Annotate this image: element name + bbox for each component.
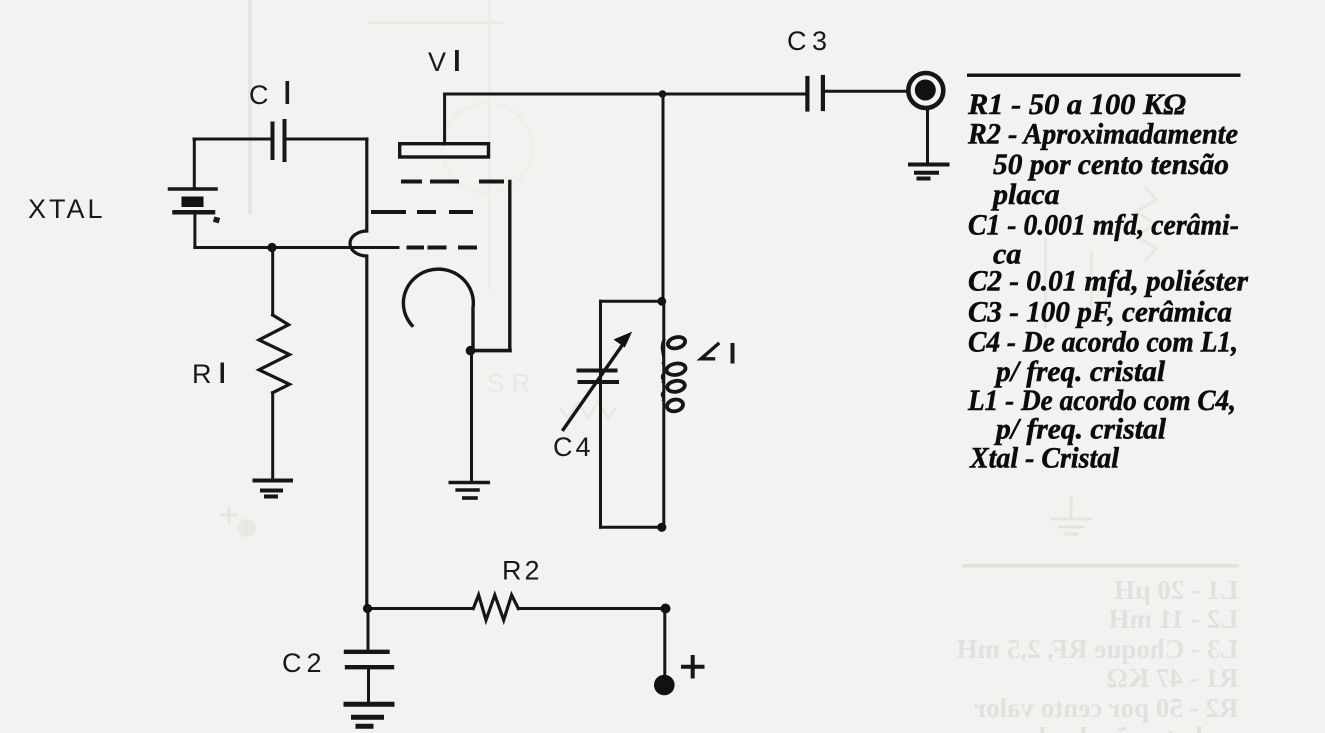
ghost horizontal strip top bbox=[368, 21, 503, 24]
wire: center line upper bbox=[662, 94, 665, 301]
wire: C2 top lead bbox=[367, 609, 370, 651]
wire: C2 bottom lead bbox=[367, 667, 370, 702]
svg-text:R2 - Aproximadamente: R2 - Aproximadamente bbox=[967, 118, 1238, 151]
svg-text:V: V bbox=[428, 47, 449, 77]
wire: cathode ground lead bbox=[470, 351, 473, 481]
terminal B+ dot bbox=[654, 675, 675, 696]
capacitor C4 plates bbox=[579, 371, 618, 383]
svg-text:R2: R2 bbox=[502, 556, 543, 586]
ghost ground bottom right bbox=[1052, 498, 1091, 534]
capacitor C2 plates bbox=[346, 652, 392, 667]
svg-text:R2 - 50 por cento valor: R2 - 50 por cento valor bbox=[974, 693, 1238, 723]
svg-text:C: C bbox=[787, 26, 810, 56]
crystal XTAL bbox=[170, 189, 221, 223]
node: tank bottom junction bbox=[657, 523, 666, 532]
resistor R1 label bbox=[192, 359, 224, 389]
legend rule bbox=[967, 74, 1241, 77]
wire: loop right vertical with hop bbox=[350, 139, 367, 609]
inductor L1 line bbox=[662, 301, 664, 527]
ground under C2 bbox=[346, 704, 392, 726]
wire: B+ top bus bbox=[445, 93, 806, 96]
svg-text:placa: placa bbox=[990, 178, 1060, 211]
svg-text:R1 - 50 a 100 KΩ: R1 - 50 a 100 KΩ bbox=[967, 88, 1186, 121]
inductor L1 label bbox=[701, 343, 735, 364]
node: plate bus junction bbox=[659, 90, 667, 98]
node: grid junction dot bbox=[267, 243, 276, 252]
wire: plate top lead bbox=[443, 94, 446, 144]
ghost tube circle bbox=[442, 103, 532, 193]
svg-text:L2 - 11 mH: L2 - 11 mH bbox=[1109, 604, 1239, 634]
svg-text:C4: C4 bbox=[553, 432, 594, 462]
wire: R2 right bbox=[518, 607, 666, 610]
label XTAL bbox=[28, 194, 106, 224]
svg-text:3: 3 bbox=[812, 26, 830, 56]
svg-text:R1 - 47 KΩ: R1 - 47 KΩ bbox=[1107, 663, 1239, 693]
wire: xtal loop top right bbox=[287, 138, 367, 141]
ghost blob bbox=[238, 519, 256, 537]
wire: cathode to suppressor bbox=[471, 349, 511, 353]
wire: xtal top lead bbox=[193, 139, 196, 188]
svg-text:C: C bbox=[249, 80, 272, 110]
svg-text:L1 - 20 µH: L1 - 20 µH bbox=[1114, 575, 1238, 605]
wire: xtal loop top left bbox=[194, 138, 270, 141]
svg-text:R: R bbox=[192, 359, 215, 389]
wire: loop bottom / grid lead bbox=[195, 246, 398, 249]
capacitor C1 plates bbox=[273, 121, 285, 160]
resistor R2 label bbox=[502, 556, 543, 586]
plus sign bbox=[683, 657, 703, 677]
tube grid row 3 (control) dashes bbox=[409, 246, 476, 250]
svg-text:C2 - 0.01 mfd, poliéster: C2 - 0.01 mfd, poliéster bbox=[968, 265, 1248, 298]
wire: R1 bottom lead bbox=[271, 393, 274, 478]
svg-text:C: C bbox=[282, 648, 305, 678]
ghost small plus left bbox=[222, 508, 236, 522]
wire: C4 upper lead bbox=[599, 301, 602, 527]
svg-text:L3 - Choque RF, 2,5 mH: L3 - Choque RF, 2,5 mH bbox=[957, 634, 1239, 664]
inductor L1 loops bbox=[666, 335, 687, 412]
wire: B+ terminal lead bbox=[663, 609, 666, 681]
output connector J1 bbox=[908, 73, 943, 108]
ghost marks right bbox=[1044, 238, 1047, 328]
node: tank top junction bbox=[657, 297, 666, 306]
svg-text:50 por cento tensão: 50 por cento tensão bbox=[993, 148, 1229, 181]
ghost mirrored text block bbox=[957, 575, 1239, 733]
capacitor C1 label bbox=[249, 80, 289, 110]
wire: R1 top lead bbox=[271, 248, 274, 316]
svg-text:Xtal - Cristal: Xtal - Cristal bbox=[969, 442, 1120, 475]
node: R2 right junction bbox=[661, 604, 671, 614]
main schematic ink bbox=[28, 26, 948, 726]
ground under R1 bbox=[255, 481, 292, 497]
node: cathode junction dot bbox=[466, 346, 476, 356]
tube plate bbox=[400, 144, 489, 157]
bleed-through ghost layer bbox=[222, 0, 1239, 733]
resistor R1 zigzag bbox=[259, 315, 290, 393]
ghost wave mark bbox=[560, 402, 616, 418]
node: R2 left junction bbox=[363, 604, 372, 613]
capacitor C4 arrow bbox=[563, 332, 632, 430]
ghost rule bottom right bbox=[962, 564, 1239, 568]
ground under connector bbox=[910, 165, 948, 179]
legend block bbox=[967, 74, 1248, 475]
capacitor C3 label bbox=[787, 26, 830, 56]
svg-text:C3 - 100 pF, cerâmica: C3 - 100 pF, cerâmica bbox=[968, 296, 1232, 329]
capacitor C2 label bbox=[282, 648, 325, 678]
svg-text:XTAL: XTAL bbox=[28, 194, 106, 224]
svg-text:da tensão de placa: da tensão de placa bbox=[999, 722, 1210, 733]
svg-text:C4 - De acordo com L1,: C4 - De acordo com L1, bbox=[968, 326, 1238, 359]
capacitor C4 label bbox=[553, 432, 594, 462]
wire: tank top bbox=[601, 300, 664, 303]
ghost vertical strip left bbox=[248, 0, 252, 215]
wire: connector ground lead bbox=[926, 108, 929, 163]
ghost vertical strip mid bbox=[488, 0, 491, 290]
tube grid row 2 (screen) bbox=[373, 210, 471, 214]
svg-text:S R: S R bbox=[487, 368, 530, 398]
tube V1 label bbox=[428, 47, 459, 77]
svg-text:2: 2 bbox=[307, 648, 325, 678]
capacitor C3 plates bbox=[807, 77, 823, 110]
resistor R2 zigzag bbox=[473, 595, 518, 620]
ground under cathode bbox=[450, 483, 488, 499]
wire: R2 left bbox=[367, 607, 473, 610]
wire: suppressor right lead bbox=[508, 182, 511, 351]
wire: xtal bottom lead bbox=[193, 212, 196, 248]
tube grid row 1 (suppressor) bbox=[403, 180, 502, 184]
ghost zigzag R right bbox=[1136, 188, 1156, 260]
wire: tank bottom bbox=[601, 526, 664, 529]
tube cathode hook bbox=[403, 269, 473, 350]
wire: C3 to connector bbox=[825, 90, 907, 93]
